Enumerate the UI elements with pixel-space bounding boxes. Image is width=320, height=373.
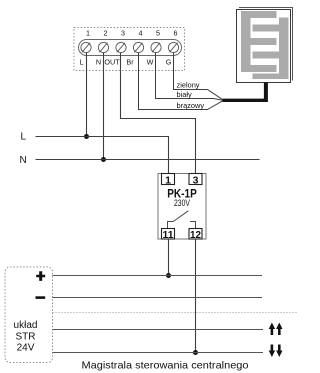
svg-text:biały: biały <box>177 90 193 99</box>
down arrow 1 <box>269 345 275 358</box>
svg-text:układ: układ <box>14 320 38 331</box>
terminal screw 2 <box>98 42 108 52</box>
svg-text:230V: 230V <box>174 198 190 208</box>
relay contact lever <box>173 211 188 222</box>
bus line minus <box>53 297 263 299</box>
svg-text:2: 2 <box>104 29 108 38</box>
relay U1 PK-1P body <box>158 174 206 240</box>
svg-text:zielony: zielony <box>177 81 200 90</box>
up arrow 2 <box>276 323 282 336</box>
terminal screw 3 <box>116 42 126 52</box>
down arrow 2 <box>276 345 282 358</box>
svg-text:24V: 24V <box>17 343 35 354</box>
terminal screw 5 <box>151 42 161 52</box>
L bus wire to relay pin 1 <box>36 137 169 174</box>
svg-text:6: 6 <box>174 29 178 38</box>
terminal strip body <box>79 40 182 56</box>
svg-text:3: 3 <box>193 174 199 186</box>
terminal screw 6 <box>168 42 178 52</box>
svg-text:3: 3 <box>121 29 125 38</box>
junction dot N <box>101 157 106 162</box>
bus line up <box>53 329 264 331</box>
wire OUT: terminal 3 to relay pin 3 <box>121 53 196 174</box>
relay pin 1 box <box>162 174 175 185</box>
up arrow 1 <box>269 323 275 336</box>
wire relay pin 11 to plus bus <box>168 239 170 276</box>
bus line down <box>53 352 264 354</box>
svg-text:1: 1 <box>86 29 90 38</box>
relay contact fixed right <box>190 222 196 230</box>
junction dot L <box>84 134 89 139</box>
wire N: terminal 2 down to N bus <box>103 53 105 160</box>
wire L: terminal 1 down to L bus <box>86 53 88 137</box>
bus line dotted <box>53 312 299 314</box>
minus symbol <box>36 296 46 299</box>
terminal screw 1 <box>81 42 91 52</box>
junction dot pin11/plus <box>166 273 171 278</box>
svg-text:L: L <box>80 58 84 67</box>
svg-text:Magistrala sterowania centraln: Magistrala sterowania centralnego <box>82 360 249 372</box>
svg-text:W: W <box>147 58 154 67</box>
terminal screw 4 <box>133 42 143 52</box>
STR unit dashed box <box>5 267 53 363</box>
plus symbol <box>36 271 45 281</box>
N bus wire <box>36 159 260 161</box>
svg-text:5: 5 <box>156 29 160 38</box>
svg-text:N: N <box>96 58 101 67</box>
sensor left electrode <box>241 11 277 72</box>
wire relay pin 12 to down bus <box>195 239 197 353</box>
svg-text:N: N <box>20 155 27 166</box>
wire bialy: terminal 5 to cable <box>156 53 223 101</box>
relay pin 12 box <box>189 229 202 240</box>
terminal block X1 dashed enclosure <box>74 28 185 71</box>
relay pin 11 box <box>162 229 175 240</box>
rain sensor board <box>237 10 291 83</box>
svg-text:STR: STR <box>16 331 36 342</box>
svg-text:1: 1 <box>165 174 171 186</box>
junction dot pin12/down bus <box>193 350 198 355</box>
wire brazowy: terminal 4 to cable <box>139 53 223 110</box>
svg-text:Br: Br <box>126 58 134 67</box>
rain sensor back edge (3D) <box>239 8 293 81</box>
bus line plus <box>53 275 263 277</box>
sensor cable <box>223 83 268 103</box>
relay pin 3 box <box>189 174 202 185</box>
svg-text:OUT: OUT <box>104 58 120 67</box>
svg-text:brązowy: brązowy <box>177 101 205 110</box>
svg-text:4: 4 <box>139 29 143 38</box>
relay contact fixed left <box>168 222 174 230</box>
sensor right electrode <box>253 18 289 80</box>
svg-text:L: L <box>21 132 27 143</box>
svg-text:G: G <box>166 58 172 67</box>
wire zielony: terminal 6 to cable <box>174 53 223 100</box>
